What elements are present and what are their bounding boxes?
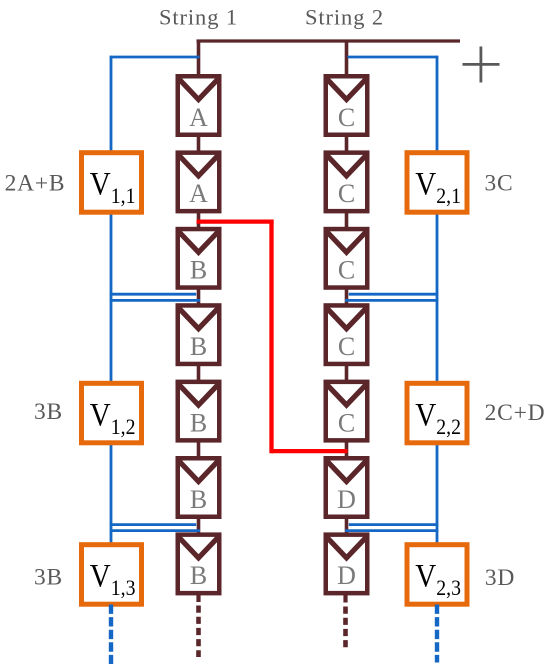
svg-text:3B: 3B	[34, 399, 63, 425]
PV module A2 (string 1 pos 2)	[178, 153, 220, 212]
voltmeter box V2,2	[407, 383, 467, 443]
svg-text:String 1: String 1	[159, 5, 238, 30]
wire: string 2 link 1	[345, 135, 349, 153]
wire: string 1 link 6	[197, 517, 201, 535]
wire: string 1 link 1	[197, 135, 201, 153]
wire: right sense bus segment 1	[436, 56, 439, 152]
wire: left sense bus segment 3	[110, 443, 113, 544]
wire: string 1 dashed continuation	[196, 606, 201, 658]
voltmeter box V2,1	[407, 153, 467, 213]
wire: left tap 2 upper	[110, 523, 196, 526]
svg-text:D: D	[337, 561, 356, 590]
svg-text:3B: 3B	[34, 565, 63, 591]
svg-text:A: A	[189, 103, 208, 132]
svg-text:C: C	[338, 179, 355, 208]
PV module D (string 2 pos 6)	[326, 458, 368, 517]
wire: string 2 link 3	[345, 288, 349, 306]
svg-text:2C+D: 2C+D	[485, 400, 546, 426]
wire: right tap 2 upper	[349, 523, 438, 526]
svg-text:C: C	[338, 103, 355, 132]
wire: string 2 link 5	[345, 441, 349, 459]
wire: string 1 top lead	[197, 40, 201, 78]
svg-text:3D: 3D	[485, 565, 515, 591]
wire: string 2 dashed continuation	[343, 607, 348, 651]
voltmeter box V1,2	[82, 383, 142, 443]
wire: left sense top horizontal	[110, 56, 200, 59]
voltmeter box V2,3	[407, 545, 467, 605]
svg-text:C: C	[338, 256, 355, 285]
wire: right sense top horizontal	[348, 56, 439, 59]
PV module C (string 2 pos 4)	[326, 305, 368, 364]
wire: string 1 link 2	[197, 211, 201, 229]
wire: string 2 bottom stub	[343, 593, 347, 602]
wire: string 1 link 4	[197, 364, 201, 382]
wire: right sense bus segment 3	[436, 443, 439, 544]
wire: right tap 1 upper	[349, 293, 438, 296]
PV module B4 (string 1 pos 4)	[178, 305, 220, 364]
wire: right tap 2 lower	[345, 529, 438, 532]
wire: string 2 top lead	[345, 41, 349, 77]
wire: red crossover horizontal lower	[272, 449, 348, 453]
svg-text:A: A	[189, 179, 208, 208]
svg-text:B: B	[190, 408, 207, 437]
svg-text:B: B	[190, 485, 207, 514]
PV module B7 (string 1 pos 7)	[178, 535, 220, 594]
wire: string 2 link 4	[345, 364, 349, 382]
wire: left dashed continuation	[109, 605, 113, 665]
PV module B5 (string 1 pos 5)	[178, 382, 220, 441]
PV module C (string 2 pos 5)	[326, 382, 368, 441]
svg-text:D: D	[337, 485, 356, 514]
wire: string 2 link 2	[345, 211, 349, 229]
wire: string 1 link 5	[197, 441, 201, 459]
svg-text:B: B	[190, 332, 207, 361]
wire: left tap 2 lower	[110, 529, 200, 532]
svg-text:C: C	[338, 408, 355, 437]
wire: string 1 bottom stub	[196, 593, 200, 602]
wire: left tap 1 lower	[110, 299, 200, 302]
plus terminal	[463, 47, 500, 83]
wire: right sense bus segment 2	[436, 213, 439, 383]
wire: red crossover vertical	[269, 220, 273, 454]
wire: left sense bus segment 2	[110, 213, 113, 383]
svg-text:B: B	[190, 561, 207, 590]
PV module B3 (string 1 pos 3)	[178, 229, 220, 287]
PV module D (string 2 pos 7)	[326, 535, 368, 594]
PV module C (string 2 pos 3)	[326, 229, 368, 287]
svg-text:2A+B: 2A+B	[5, 171, 66, 197]
wire: right dashed continuation	[435, 605, 439, 663]
PV module C (string 2 pos 1)	[326, 76, 368, 135]
voltmeter box V1,1	[82, 153, 142, 213]
wire: left tap 1 upper	[110, 293, 196, 296]
wire: left sense bus segment 1	[110, 56, 113, 152]
voltmeter box V1,3	[82, 545, 142, 605]
wire: red crossover horizontal upper	[197, 219, 274, 223]
PV module C (string 2 pos 2)	[326, 153, 368, 212]
wire: positive top bus	[197, 39, 461, 42]
svg-text:B: B	[190, 256, 207, 285]
svg-text:String 2: String 2	[305, 5, 384, 30]
wire: string 1 link 3	[197, 288, 201, 306]
wire: string 2 link 6	[345, 517, 349, 535]
PV module A1 (string 1 pos 1)	[178, 76, 220, 135]
wire: right tap 1 lower	[345, 299, 438, 302]
svg-text:C: C	[338, 332, 355, 361]
svg-text:3C: 3C	[484, 171, 513, 197]
PV module B6 (string 1 pos 6)	[178, 458, 220, 517]
